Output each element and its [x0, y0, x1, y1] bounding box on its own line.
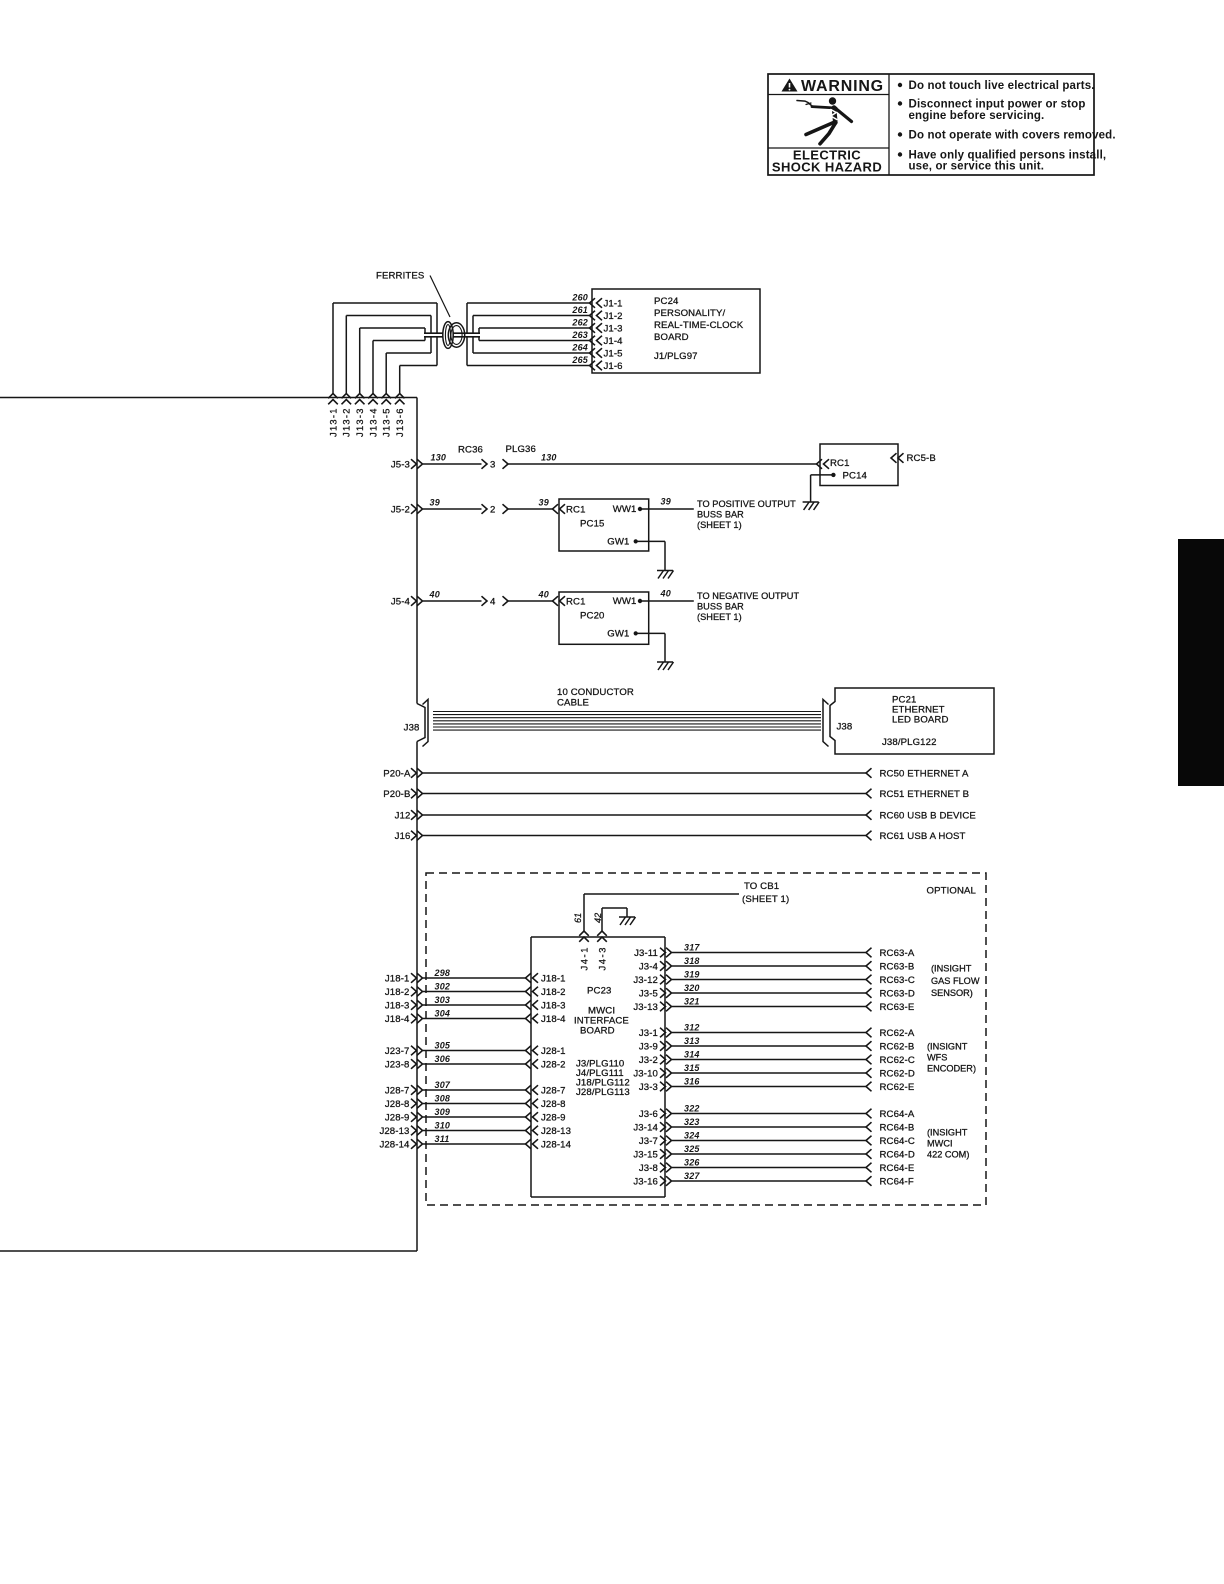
- svg-text:316: 316: [684, 1076, 700, 1086]
- svg-text:BOARD: BOARD: [654, 332, 689, 343]
- svg-text:265: 265: [571, 355, 588, 365]
- svg-text:323: 323: [684, 1117, 700, 1127]
- svg-text:J18-1: J18-1: [385, 973, 410, 984]
- svg-text:MWCI: MWCI: [927, 1139, 953, 1149]
- svg-text:J28/PLG113: J28/PLG113: [576, 1087, 630, 1098]
- svg-text:engine before servicing.: engine before servicing.: [909, 110, 1045, 122]
- svg-text:OPTIONAL: OPTIONAL: [927, 886, 977, 897]
- svg-text:J3-10: J3-10: [633, 1068, 658, 1079]
- svg-text:40: 40: [538, 590, 549, 600]
- svg-text:J13-2: J13-2: [342, 407, 352, 437]
- svg-text:Disconnect input power or stop: Disconnect input power or stop: [909, 99, 1086, 111]
- svg-text:J3-13: J3-13: [633, 1002, 658, 1013]
- svg-text:PC20: PC20: [580, 611, 604, 622]
- svg-text:PC23: PC23: [587, 986, 611, 997]
- svg-text:WARNING: WARNING: [801, 78, 884, 95]
- svg-text:J38: J38: [837, 722, 853, 733]
- svg-text:264: 264: [571, 343, 588, 353]
- svg-text:J12: J12: [395, 810, 411, 821]
- svg-text:REAL-TIME-CLOCK: REAL-TIME-CLOCK: [654, 320, 744, 331]
- svg-text:J1-4: J1-4: [604, 336, 624, 347]
- svg-text:RC64-D: RC64-D: [880, 1149, 915, 1160]
- svg-text:317: 317: [684, 942, 700, 952]
- svg-text:314: 314: [684, 1049, 700, 1059]
- svg-text:Do not operate with covers rem: Do not operate with covers removed.: [909, 130, 1116, 142]
- svg-text:TO NEGATIVE OUTPUT: TO NEGATIVE OUTPUT: [697, 591, 799, 601]
- svg-text:4: 4: [490, 596, 496, 607]
- svg-text:FERRITES: FERRITES: [376, 271, 424, 282]
- svg-text:J3-15: J3-15: [633, 1149, 658, 1160]
- svg-text:RC62-D: RC62-D: [880, 1068, 915, 1079]
- svg-text:J28-13: J28-13: [541, 1126, 571, 1137]
- svg-text:J5-4: J5-4: [391, 596, 411, 607]
- svg-text:PLG36: PLG36: [506, 444, 536, 455]
- svg-text:GAS FLOW: GAS FLOW: [931, 976, 980, 986]
- svg-text:RC50 ETHERNET A: RC50 ETHERNET A: [880, 768, 970, 779]
- svg-text:RC63-E: RC63-E: [880, 1002, 915, 1013]
- svg-text:J28-8: J28-8: [385, 1099, 410, 1110]
- svg-text:P20-B: P20-B: [383, 789, 410, 800]
- svg-text:RC51 ETHERNET B: RC51 ETHERNET B: [880, 789, 970, 800]
- svg-text:10 CONDUCTOR: 10 CONDUCTOR: [557, 687, 634, 698]
- svg-text:RC62-E: RC62-E: [880, 1082, 915, 1093]
- svg-text:J3-16: J3-16: [633, 1176, 658, 1187]
- svg-text:308: 308: [435, 1093, 451, 1103]
- svg-text:RC64-A: RC64-A: [880, 1109, 915, 1120]
- svg-text:J3-12: J3-12: [633, 975, 658, 986]
- svg-text:RC1: RC1: [830, 458, 850, 469]
- svg-text:320: 320: [684, 983, 700, 993]
- svg-text:312: 312: [684, 1022, 700, 1032]
- svg-text:J3-8: J3-8: [639, 1163, 658, 1174]
- svg-text:J18-4: J18-4: [385, 1014, 410, 1025]
- svg-text:PC24: PC24: [654, 296, 679, 307]
- svg-text:J13-5: J13-5: [382, 407, 392, 437]
- svg-text:130: 130: [541, 453, 557, 463]
- svg-text:42: 42: [593, 913, 603, 923]
- svg-text:BUSS BAR: BUSS BAR: [697, 510, 744, 520]
- svg-text:RC1: RC1: [566, 504, 586, 515]
- svg-text:J28-8: J28-8: [541, 1099, 566, 1110]
- svg-text:324: 324: [684, 1130, 700, 1140]
- svg-text:262: 262: [571, 318, 588, 328]
- svg-text:305: 305: [435, 1040, 451, 1050]
- svg-text:WW1: WW1: [613, 504, 637, 515]
- svg-text:(SHEET 1): (SHEET 1): [697, 612, 742, 622]
- svg-text:130: 130: [431, 453, 447, 463]
- svg-text:BOARD: BOARD: [580, 1026, 615, 1037]
- svg-text:RC63-D: RC63-D: [880, 988, 915, 999]
- svg-text:39: 39: [539, 498, 549, 508]
- svg-text:304: 304: [435, 1008, 451, 1018]
- svg-text:(INSIGHT: (INSIGHT: [927, 1128, 968, 1138]
- svg-text:J3-6: J3-6: [639, 1109, 658, 1120]
- svg-text:263: 263: [571, 330, 588, 340]
- svg-text:J3-3: J3-3: [639, 1082, 658, 1093]
- svg-text:298: 298: [434, 968, 451, 978]
- svg-text:J1/PLG97: J1/PLG97: [654, 351, 698, 362]
- svg-text:J38: J38: [404, 723, 420, 734]
- svg-text:WW1: WW1: [613, 596, 637, 607]
- svg-text:use, or service this unit.: use, or service this unit.: [909, 161, 1045, 173]
- svg-text:RC64-C: RC64-C: [880, 1136, 915, 1147]
- svg-text:J28-1: J28-1: [541, 1046, 566, 1057]
- svg-text:J18-2: J18-2: [385, 987, 410, 998]
- svg-text:J18-4: J18-4: [541, 1014, 566, 1025]
- svg-text:RC5-B: RC5-B: [907, 453, 936, 464]
- svg-text:J1-2: J1-2: [604, 311, 623, 322]
- svg-text:J28-2: J28-2: [541, 1059, 566, 1070]
- svg-text:306: 306: [435, 1054, 451, 1064]
- svg-text:2: 2: [490, 504, 495, 515]
- svg-text:307: 307: [435, 1080, 451, 1090]
- svg-text:J13-1: J13-1: [328, 407, 338, 437]
- svg-text:J28-7: J28-7: [541, 1085, 566, 1096]
- svg-text:326: 326: [684, 1157, 700, 1167]
- svg-text:261: 261: [571, 305, 588, 315]
- svg-text:311: 311: [435, 1134, 450, 1144]
- svg-text:J18-3: J18-3: [385, 1000, 410, 1011]
- svg-text:J28-7: J28-7: [385, 1085, 410, 1096]
- svg-text:J3-4: J3-4: [639, 961, 659, 972]
- svg-text:RC62-A: RC62-A: [880, 1028, 915, 1039]
- svg-text:J1-3: J1-3: [604, 323, 623, 334]
- svg-text:(SHEET 1): (SHEET 1): [742, 894, 789, 905]
- svg-text:GW1: GW1: [607, 537, 629, 548]
- svg-text:39: 39: [430, 498, 440, 508]
- svg-text:3: 3: [490, 459, 495, 470]
- svg-text:J1-6: J1-6: [604, 361, 623, 372]
- svg-text:RC63-A: RC63-A: [880, 948, 915, 959]
- svg-text:RC62-C: RC62-C: [880, 1055, 915, 1066]
- svg-text:J23-8: J23-8: [385, 1059, 410, 1070]
- svg-text:SENSOR): SENSOR): [931, 988, 973, 998]
- svg-text:TO POSITIVE OUTPUT: TO POSITIVE OUTPUT: [697, 499, 796, 509]
- svg-text:RC36: RC36: [458, 444, 483, 455]
- svg-text:309: 309: [435, 1107, 451, 1117]
- svg-text:SHOCK HAZARD: SHOCK HAZARD: [772, 160, 882, 175]
- svg-text:J3-7: J3-7: [639, 1136, 658, 1147]
- svg-text:J1-5: J1-5: [604, 348, 623, 359]
- svg-text:(INSIGNT: (INSIGNT: [927, 1042, 968, 1052]
- svg-text:J4-3: J4-3: [598, 946, 608, 971]
- svg-text:J13-4: J13-4: [368, 407, 378, 437]
- svg-text:J28-14: J28-14: [379, 1139, 410, 1150]
- svg-text:J3-14: J3-14: [633, 1122, 658, 1133]
- svg-text:RC64-B: RC64-B: [880, 1122, 915, 1133]
- svg-text:BUSS BAR: BUSS BAR: [697, 602, 744, 612]
- svg-text:Do not touch live electrical p: Do not touch live electrical parts.: [909, 80, 1095, 92]
- svg-text:61: 61: [573, 913, 583, 923]
- svg-text:J28-9: J28-9: [385, 1112, 410, 1123]
- svg-text:RC63-C: RC63-C: [880, 975, 915, 986]
- svg-text:J28-9: J28-9: [541, 1112, 566, 1123]
- svg-text:40: 40: [429, 590, 440, 600]
- svg-text:CABLE: CABLE: [557, 698, 589, 709]
- svg-text:ENCODER): ENCODER): [927, 1064, 976, 1074]
- svg-text:WFS: WFS: [927, 1053, 947, 1063]
- svg-text:(INSIGHT: (INSIGHT: [931, 964, 972, 974]
- svg-text:PC14: PC14: [843, 471, 868, 482]
- svg-text:318: 318: [684, 956, 700, 966]
- svg-text:260: 260: [571, 293, 588, 303]
- svg-text:J16: J16: [395, 831, 411, 842]
- svg-text:J13-3: J13-3: [355, 407, 365, 437]
- svg-text:39: 39: [661, 497, 671, 507]
- svg-text:J4-1: J4-1: [580, 946, 590, 971]
- svg-text:J5-3: J5-3: [391, 459, 410, 470]
- svg-text:302: 302: [435, 981, 451, 991]
- svg-text:303: 303: [435, 995, 451, 1005]
- svg-text:J28-14: J28-14: [541, 1139, 572, 1150]
- svg-text:315: 315: [684, 1063, 700, 1073]
- svg-text:327: 327: [684, 1171, 700, 1181]
- svg-text:LED BOARD: LED BOARD: [892, 715, 949, 726]
- svg-text:422 COM): 422 COM): [927, 1150, 969, 1160]
- svg-text:J1-1: J1-1: [604, 298, 623, 309]
- svg-text:J3-9: J3-9: [639, 1041, 658, 1052]
- svg-text:J5-2: J5-2: [391, 504, 410, 515]
- svg-text:J3-11: J3-11: [634, 948, 658, 959]
- svg-text:J18-3: J18-3: [541, 1000, 566, 1011]
- svg-text:325: 325: [684, 1144, 700, 1154]
- svg-text:J3-1: J3-1: [639, 1028, 658, 1039]
- svg-text:RC64-E: RC64-E: [880, 1163, 915, 1174]
- svg-text:321: 321: [684, 996, 700, 1006]
- svg-text:PERSONALITY/: PERSONALITY/: [654, 308, 725, 319]
- svg-text:RC60 USB B DEVICE: RC60 USB B DEVICE: [880, 810, 976, 821]
- svg-text:RC63-B: RC63-B: [880, 961, 915, 972]
- svg-text:319: 319: [684, 969, 700, 979]
- svg-text:J23-7: J23-7: [385, 1046, 410, 1057]
- svg-text:RC1: RC1: [566, 596, 586, 607]
- svg-text:TO CB1: TO CB1: [744, 881, 779, 892]
- svg-text:RC61 USB A HOST: RC61 USB A HOST: [880, 831, 966, 842]
- svg-text:J28-13: J28-13: [379, 1126, 409, 1137]
- svg-text:J13-6: J13-6: [395, 407, 405, 437]
- svg-text:PC15: PC15: [580, 519, 604, 530]
- svg-text:40: 40: [660, 589, 671, 599]
- svg-text:RC62-B: RC62-B: [880, 1041, 915, 1052]
- svg-text:313: 313: [684, 1036, 700, 1046]
- svg-text:P20-A: P20-A: [383, 768, 411, 779]
- svg-text:322: 322: [684, 1103, 700, 1113]
- svg-text:GW1: GW1: [607, 629, 629, 640]
- svg-text:J38/PLG122: J38/PLG122: [882, 737, 937, 748]
- svg-text:310: 310: [435, 1120, 451, 1130]
- svg-text:(SHEET 1): (SHEET 1): [697, 520, 742, 530]
- svg-text:J3-2: J3-2: [639, 1055, 658, 1066]
- svg-text:J18-1: J18-1: [541, 973, 566, 984]
- svg-text:RC64-F: RC64-F: [880, 1176, 914, 1187]
- svg-text:J18-2: J18-2: [541, 987, 566, 998]
- svg-text:J3-5: J3-5: [639, 988, 658, 999]
